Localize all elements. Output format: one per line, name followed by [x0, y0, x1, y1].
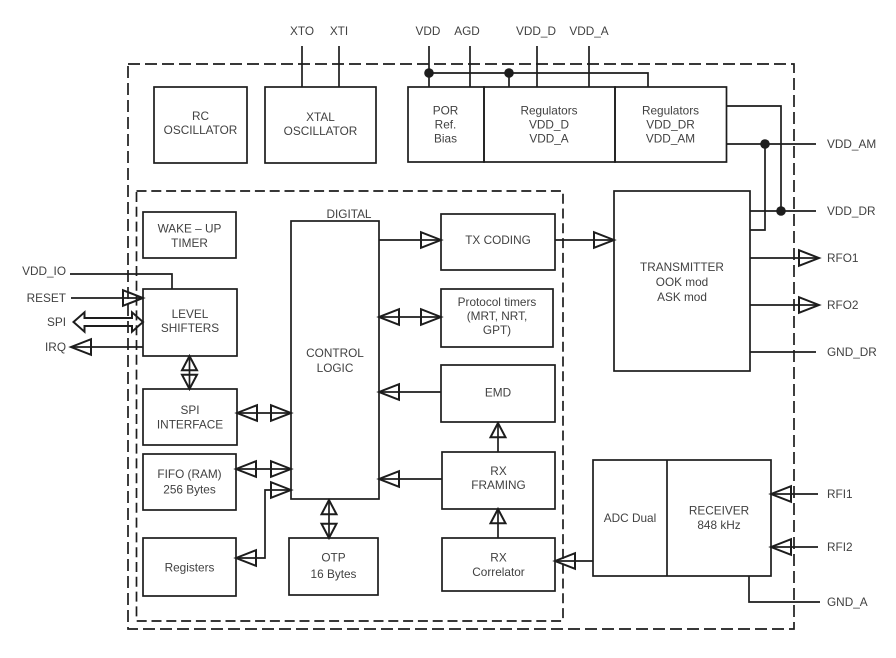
text CONTROL LOGIC — [306, 346, 364, 375]
pin VDD_A wire — [588, 46, 590, 87]
svg-text:IRQ: IRQ — [45, 340, 66, 354]
svg-text:Correlator: Correlator — [472, 565, 525, 579]
block RX FRAMING — [442, 452, 555, 509]
block Regulators VDD_D VDD_A — [484, 87, 615, 162]
arrow LEVEL SHIFTERS to SPI INTERFACE (bidir) — [182, 356, 197, 389]
block POR Ref Bias — [408, 87, 484, 162]
pin RFI2 wire and arrowhead — [771, 539, 818, 555]
svg-text:256 Bytes: 256 Bytes — [163, 483, 216, 497]
svg-text:Regulators: Regulators — [642, 104, 699, 118]
pin XTI wire — [338, 46, 340, 87]
pin VDD_IO wire — [70, 274, 172, 289]
svg-text:RFI2: RFI2 — [827, 540, 853, 554]
label VDD_AM — [827, 137, 876, 151]
svg-text:SHIFTERS: SHIFTERS — [161, 321, 219, 335]
label AGD — [454, 24, 480, 38]
svg-text:SPI: SPI — [47, 315, 66, 329]
block RC OSCILLATOR — [154, 87, 247, 163]
svg-text:CONTROL: CONTROL — [306, 346, 364, 360]
svg-text:INTERFACE: INTERFACE — [157, 418, 223, 432]
label RESET — [27, 291, 66, 305]
arrow CONTROL LOGIC to Protocol timers (bidir) — [379, 309, 441, 325]
digital section boundary — [137, 191, 564, 621]
junction dot VDD — [424, 68, 434, 78]
text TRANSMITTER OOK ASK — [640, 260, 724, 304]
svg-text:Ref.: Ref. — [435, 118, 457, 132]
svg-text:RESET: RESET — [27, 291, 66, 305]
text WAKE-UP TIMER — [158, 222, 222, 251]
block ADC Dual / RECEIVER — [593, 460, 771, 576]
pin RFI1 wire and arrowhead — [771, 486, 818, 502]
label VDD_IO — [22, 264, 66, 278]
junction dot bus branch — [504, 68, 514, 78]
svg-text:VDD_D: VDD_D — [516, 24, 556, 38]
svg-text:(MRT, NRT,: (MRT, NRT, — [467, 309, 528, 323]
svg-text:EMD: EMD — [485, 386, 511, 400]
svg-text:AGD: AGD — [454, 24, 480, 38]
svg-text:ASK mod: ASK mod — [657, 290, 707, 304]
pin RESET wire and arrowhead — [71, 290, 143, 306]
block Regulators VDD_DR VDD_AM — [615, 87, 727, 162]
svg-text:VDD_A: VDD_A — [529, 132, 568, 146]
svg-text:RX: RX — [490, 464, 507, 478]
svg-text:OTP: OTP — [321, 551, 345, 565]
svg-text:SPI: SPI — [180, 403, 199, 417]
svg-text:LEVEL: LEVEL — [172, 307, 209, 321]
text Registers — [165, 561, 215, 575]
svg-text:LOGIC: LOGIC — [317, 361, 354, 375]
label VDD_DR — [827, 204, 876, 218]
label VDD_A — [569, 24, 608, 38]
block WAKE-UP TIMER — [143, 212, 236, 258]
text Protocol timers — [458, 295, 537, 337]
svg-text:RC: RC — [192, 109, 210, 123]
block Protocol timers — [441, 289, 553, 347]
svg-text:FRAMING: FRAMING — [471, 478, 525, 492]
text ADC Dual — [604, 511, 656, 525]
block TX CODING — [441, 214, 555, 270]
svg-text:VDD: VDD — [416, 24, 441, 38]
text FIFO (RAM) 256 Bytes — [157, 467, 221, 497]
block OTP — [289, 538, 378, 595]
svg-text:VDD_DR: VDD_DR — [827, 204, 876, 218]
svg-text:VDD_D: VDD_D — [529, 118, 569, 132]
block FIFO (RAM) — [143, 454, 236, 510]
svg-text:RFO2: RFO2 — [827, 298, 858, 312]
svg-text:GPT): GPT) — [483, 323, 511, 337]
svg-text:TIMER: TIMER — [171, 236, 208, 250]
svg-text:TRANSMITTER: TRANSMITTER — [640, 260, 724, 274]
svg-text:OSCILLATOR: OSCILLATOR — [164, 123, 238, 137]
wire CONTROL LOGIC to Registers with arrowheads — [236, 482, 291, 566]
text XTAL OSCILLATOR — [284, 110, 358, 138]
text POR Ref Bias — [433, 104, 459, 146]
text Regulators VDD_D VDD_A — [520, 104, 577, 146]
svg-text:VDD_AM: VDD_AM — [646, 132, 695, 146]
label RFO2 — [827, 298, 858, 312]
wire VDD_AM branch to transmitter — [750, 144, 765, 230]
text RX FRAMING — [471, 464, 525, 492]
pin RFO1 wire and arrowhead — [750, 250, 819, 266]
svg-text:DIGITAL: DIGITAL — [326, 207, 371, 221]
block TRANSMITTER — [614, 191, 750, 371]
label IRQ — [45, 340, 66, 354]
svg-text:RX: RX — [490, 551, 507, 565]
pin VDD_D wire — [536, 46, 538, 87]
junction dot VDD_AM — [760, 139, 770, 149]
svg-text:VDD_AM: VDD_AM — [827, 137, 876, 151]
svg-text:TX CODING: TX CODING — [465, 233, 531, 247]
text TX CODING — [465, 233, 531, 247]
junction dot VDD_DR — [776, 206, 786, 216]
svg-text:Protocol timers: Protocol timers — [458, 295, 537, 309]
arrow CONTROL LOGIC to TX CODING — [379, 232, 441, 248]
svg-text:VDD_A: VDD_A — [569, 24, 608, 38]
outer chip boundary — [128, 64, 794, 629]
block LEVEL SHIFTERS — [143, 289, 237, 356]
text RECEIVER 848 kHz — [689, 504, 749, 533]
block EMD — [441, 365, 555, 422]
text OTP 16 Bytes — [311, 551, 357, 582]
block RX Correlator — [442, 538, 555, 591]
text SPI INTERFACE — [157, 403, 223, 432]
text Regulators VDD_DR VDD_AM — [642, 104, 699, 146]
arrow EMD to CONTROL LOGIC — [379, 384, 441, 400]
svg-text:GND_A: GND_A — [827, 595, 868, 609]
arrow RX FRAMING to EMD — [491, 423, 506, 452]
text RC OSCILLATOR — [164, 109, 238, 137]
arrow RX FRAMING to CONTROL LOGIC — [379, 471, 442, 487]
pin IRQ wire and arrowhead — [71, 339, 143, 355]
label RFI2 — [827, 540, 853, 554]
svg-text:RFO1: RFO1 — [827, 251, 858, 265]
wire pin VDD_AM — [727, 143, 817, 145]
label XTO — [290, 24, 314, 38]
svg-text:Regulators: Regulators — [520, 104, 577, 118]
svg-text:RECEIVER: RECEIVER — [689, 504, 749, 518]
label RFO1 — [827, 251, 858, 265]
block XTAL OSCILLATOR — [265, 87, 376, 163]
pin RFO2 wire and arrowhead — [750, 297, 819, 313]
label VDD_D — [516, 24, 556, 38]
label RFI1 — [827, 487, 853, 501]
pin GND_DR wire — [750, 351, 816, 353]
svg-text:POR: POR — [433, 104, 459, 118]
svg-text:OSCILLATOR: OSCILLATOR — [284, 124, 358, 138]
svg-text:RFI1: RFI1 — [827, 487, 853, 501]
arrow FIFO to CONTROL LOGIC (bidir) — [236, 461, 291, 477]
pin VDD wire — [428, 46, 430, 87]
svg-text:Bias: Bias — [434, 132, 457, 146]
label VDD — [416, 24, 441, 38]
svg-text:848 kHz: 848 kHz — [697, 518, 740, 532]
text LEVEL SHIFTERS — [161, 307, 219, 335]
label GND_DR — [827, 345, 877, 359]
svg-text:GND_DR: GND_DR — [827, 345, 877, 359]
svg-text:XTAL: XTAL — [306, 110, 335, 124]
arrow ADC to RX Correlator — [555, 553, 593, 569]
arrow RX Correlator to RX FRAMING — [491, 509, 506, 538]
svg-text:VDD_IO: VDD_IO — [22, 264, 66, 278]
label SPI — [47, 315, 66, 329]
label DIGITAL — [326, 207, 371, 221]
pin AGD wire — [469, 46, 471, 87]
arrow TX CODING to TRANSMITTER — [555, 232, 614, 248]
svg-text:OOK mod: OOK mod — [656, 275, 708, 289]
svg-text:FIFO (RAM): FIFO (RAM) — [157, 467, 221, 481]
svg-text:XTO: XTO — [290, 24, 314, 38]
block Registers — [143, 538, 236, 596]
svg-text:Registers: Registers — [165, 561, 215, 575]
arrow SPI INTERFACE to CONTROL LOGIC (bidir) — [237, 405, 291, 421]
pin GND_A wire — [749, 576, 820, 602]
wire regulator to VDD_DR rail — [727, 106, 782, 211]
wire VDD bus — [429, 73, 648, 87]
text RX Correlator — [472, 551, 525, 580]
text EMD — [485, 386, 511, 400]
arrow CONTROL LOGIC to OTP (bidir) — [322, 499, 337, 538]
svg-text:ADC Dual: ADC Dual — [604, 511, 656, 525]
svg-text:16 Bytes: 16 Bytes — [311, 567, 357, 581]
pin SPI bidirectional block arrow — [74, 312, 144, 331]
label XTI — [330, 24, 348, 38]
pin XTO wire — [301, 46, 303, 87]
wire pin VDD_DR — [750, 210, 816, 212]
block CONTROL LOGIC — [291, 221, 379, 499]
label GND_A — [827, 595, 868, 609]
svg-text:XTI: XTI — [330, 24, 348, 38]
block SPI INTERFACE — [143, 389, 237, 445]
svg-text:WAKE – UP: WAKE – UP — [158, 222, 222, 236]
svg-text:VDD_DR: VDD_DR — [646, 118, 695, 132]
